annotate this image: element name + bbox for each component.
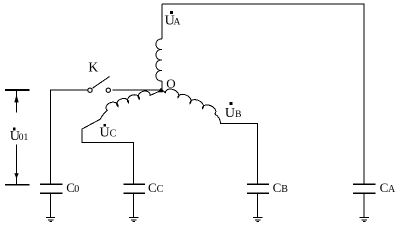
label UA [165,11,181,28]
svg-text:U: U [225,106,235,121]
svg-text:0: 0 [74,184,79,195]
wire top from UA to right corner [162,4,364,184]
label UC [100,124,117,141]
svg-text:K: K [88,60,98,75]
ground under CC [129,218,138,222]
inductor UA winding [156,39,162,81]
svg-text:B: B [281,184,288,195]
wire switch left to C0 [51,90,88,184]
svg-text:C: C [273,180,282,195]
svg-text:O: O [166,76,175,91]
label U01 [10,128,29,145]
inductor UC winding [100,90,162,119]
capacitor CB plates [247,183,269,185]
ground under CA [360,218,369,222]
switch K left contact [88,88,92,92]
U01 dimension top tick [5,89,29,91]
svg-text:C: C [380,180,389,195]
svg-text:C: C [148,180,157,195]
wire UA to node O [161,81,163,90]
wire CB to ground [257,193,259,217]
U01 dimension top segment with up arrow [16,90,18,112]
wire UA top lead [161,4,163,39]
svg-text:B: B [235,110,241,120]
wire switch right to node O [113,89,163,91]
wire CA to ground [363,193,365,217]
svg-text:C: C [157,184,164,195]
ground under C0 [46,218,55,222]
svg-text:U: U [100,126,110,141]
svg-text:C: C [110,129,117,140]
U01 dimension bottom tick [5,184,29,186]
label CA [380,180,396,195]
U01 dimension bottom segment with down arrow [16,144,18,184]
ground under CB [253,218,262,222]
capacitor C0 plates [40,183,62,185]
switch K right contact [106,88,110,92]
node O junction dot [158,88,163,92]
capacitor CC plates [124,183,145,185]
switch K blade [93,77,110,89]
label CC [148,180,164,195]
wire CC to ground [133,193,135,217]
wire C0 to ground [50,193,52,217]
label C0 [66,180,79,195]
label CB [273,180,289,195]
inductor UB winding [162,89,216,114]
svg-text:A: A [174,17,181,27]
label UB [225,102,242,121]
svg-text:A: A [388,184,396,195]
wire UB to CB [215,114,258,184]
svg-text:01: 01 [19,133,29,143]
capacitor CA plates [353,183,376,185]
wire UC to CC [82,119,134,184]
